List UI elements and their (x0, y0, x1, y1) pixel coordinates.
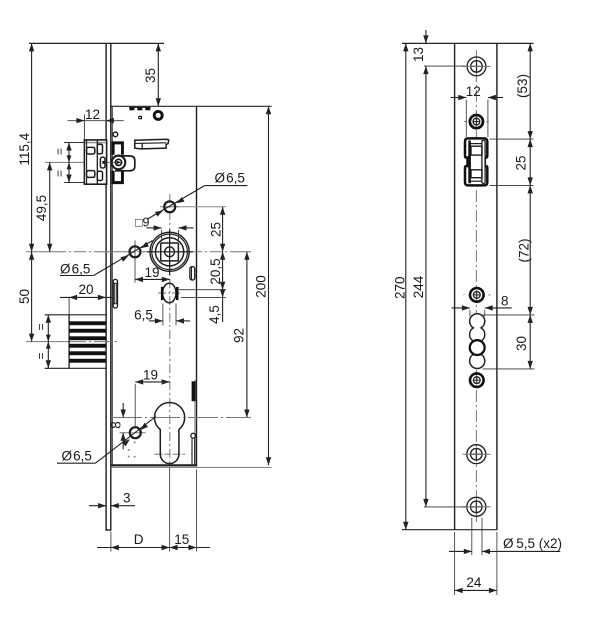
dim 8 left view (122, 403, 124, 418)
svg-text:19: 19 (144, 265, 159, 280)
dim 12 insert width (451, 97, 467, 99)
oblong hole 6,5 (163, 283, 176, 303)
nut outer ring (150, 232, 189, 271)
deadbolt lamination band 2 (69, 329, 106, 333)
latch lamination window bottom-left (87, 171, 95, 178)
vertical centerline through nut and cylinder (169, 194, 171, 464)
plate top edge with extensions (402, 42, 534, 44)
dim 8 slot width (452, 307, 470, 309)
svg-text:(72): (72) (516, 238, 531, 262)
dim 3 faceplate thickness (89, 505, 106, 507)
latch extension lines (64, 142, 84, 144)
roller center arrow tip (117, 161, 122, 164)
faceplate right edge (110, 43, 112, 530)
svg-text:92: 92 (232, 328, 247, 343)
cylinder keyway bottom tick y=454.3 (155, 453, 186, 455)
ext line y=207.5 to 25-dim (177, 206, 227, 208)
svg-text:24: 24 (466, 575, 482, 590)
faceplate cutout lower staple (112, 171, 124, 184)
case top edge with extension to 200-dim (111, 105, 272, 107)
slot selected ring (470, 340, 485, 355)
deadbolt top edge with extension (45, 314, 106, 316)
insert bottom band (470, 180, 482, 182)
case bottom shadow line / extension to 200-dim (111, 466, 272, 468)
svg-text:13: 13 (411, 47, 426, 62)
comb strip tab 2 (137, 107, 142, 110)
svg-text:8: 8 (501, 294, 509, 309)
deadbolt lamination band 4 (69, 344, 106, 348)
svg-text:200: 200 (253, 275, 268, 298)
svg-text:(53): (53) (515, 74, 530, 98)
case left edge (111, 107, 113, 465)
dim 19 upper (135, 278, 170, 280)
dim 115,4 vertical line (31, 43, 33, 251)
svg-text:3: 3 (123, 491, 131, 506)
dim 30 slot (529, 315, 531, 369)
guide ring bush (154, 111, 162, 119)
latch lamination window bottom-right (97, 171, 102, 180)
svg-text:15: 15 (174, 532, 189, 547)
ext hole F center (424, 506, 466, 508)
plate vertical centerline (475, 50, 477, 523)
dim 20 bolt throw (68, 297, 70, 314)
svg-text:35: 35 (143, 68, 158, 83)
deadbolt lamination band 5 (69, 351, 106, 355)
dim 12 latch protrusion (68, 120, 124, 122)
dim 13 (425, 30, 427, 43)
svg-text:25: 25 (514, 155, 529, 170)
svg-text:Ø 6,5: Ø 6,5 (62, 449, 92, 464)
case bottom edge (111, 464, 197, 466)
oblong side bar left (161, 287, 164, 300)
latch head inner vertical mid (96, 141, 98, 184)
comb strip tab 3 (145, 107, 150, 110)
insert top band (470, 143, 482, 145)
latch strike insert outer (465, 138, 487, 185)
slide lever bar (135, 139, 169, 149)
screw hole D (470, 373, 484, 387)
svg-text:12: 12 (85, 107, 100, 122)
dim 270 (405, 43, 407, 529)
euro profile cylinder hole (154, 403, 184, 464)
spring curl above latch (113, 132, 118, 137)
black bar on right edge (192, 381, 196, 401)
dim 24 (455, 589, 497, 591)
comb strip tab 1 (129, 107, 134, 110)
svg-text:19: 19 (143, 367, 158, 382)
bolt equal-marks dim (47, 315, 49, 369)
latch lamination window top-left (87, 147, 95, 154)
svg-text:Ø 6,5: Ø 6,5 (60, 261, 90, 276)
small square stud (138, 116, 142, 120)
dot of bolt centerline (115, 341, 118, 343)
bottom dim chain D / 15 (97, 547, 210, 549)
slide lever left square (141, 143, 143, 148)
insert adjuster column (482, 140, 485, 183)
dim Ø5,5 (x2) (471, 518, 473, 555)
deadbolt lamination band 1 (69, 321, 106, 325)
nut square 9mm (161, 243, 179, 261)
plate right edge (496, 43, 498, 529)
dim 244 (425, 66, 427, 507)
screw hole C (470, 288, 484, 302)
dim 50 (31, 252, 33, 342)
svg-text:20: 20 (78, 282, 93, 297)
ext line latch left edge (83, 115, 85, 140)
svg-text:6,5: 6,5 (134, 307, 153, 322)
insert left bar (468, 141, 471, 184)
guide stud right of faceplate (113, 279, 117, 308)
svg-text:8: 8 (108, 421, 123, 429)
svg-text:D: D (134, 532, 144, 547)
dim (72) (529, 185, 531, 315)
fixing hole left (135,251.8) (130, 246, 141, 257)
fixing hole bottom (135.3,432.7) (130, 427, 141, 438)
horizontal centerline nut / hole row y=251.8 (26, 251, 251, 253)
svg-text:=: = (53, 170, 67, 177)
deadbolt lamination band 6 (69, 359, 106, 363)
vertical tick through left hole x=135 (134, 241, 136, 264)
dim 20,5 (222, 252, 224, 290)
dim 19 lower (135, 381, 169, 383)
dim 4,5 (177, 289, 226, 291)
nut center hole (165, 247, 175, 257)
latch spindle square (100, 157, 105, 168)
nut middle ring (152, 234, 188, 270)
dim 6,5 oval (162, 304, 164, 326)
deadbolt left edge (68, 315, 70, 369)
svg-text:=: = (34, 352, 48, 359)
svg-text:Ø 5,5 (x2): Ø 5,5 (x2) (503, 536, 562, 551)
horizontal centerline lower fix hole y=432.7 (120, 432, 147, 434)
svg-text:115,4: 115,4 (17, 132, 32, 165)
svg-text:□9: □9 (135, 215, 150, 229)
pin with channel lower right (191, 433, 196, 438)
insert window top (471, 146, 482, 155)
svg-text:270: 270 (392, 276, 407, 299)
latch head inner vertical left (86, 140, 88, 184)
dotted marks near lower hole (134, 441, 136, 443)
oblong side bar right (176, 287, 179, 300)
svg-text:Ø 6,5: Ø 6,5 (215, 170, 245, 185)
dim 25 (222, 207, 224, 252)
latch head top gray band (86, 142, 107, 144)
horizontal centerline latch roller y=162.4 (45, 161, 121, 163)
nut cross centerlines (147, 251, 193, 253)
dim 25 insert height (529, 139, 531, 185)
ext hole A center (424, 65, 466, 67)
cloverleaf adjustment slot (470, 314, 485, 369)
plate bottom edge with extension (402, 529, 498, 531)
fixing hole top (169.8,207.5) (164, 201, 175, 212)
screw hole F bottom (467, 497, 486, 516)
plate left edge (454, 43, 456, 529)
dim (53) (529, 43, 531, 139)
latch lamination window top-right (97, 144, 102, 154)
horizontal centerline deadbolt y=341.6 (26, 341, 112, 343)
nut inner ring (156, 238, 184, 266)
horizontal centerline cylinder y=417.5 (112, 417, 251, 419)
dim 200 (268, 106, 270, 465)
latch equal-marks dim (68, 143, 70, 183)
svg-text:25: 25 (208, 222, 223, 237)
comb strip rail (129, 106, 151, 108)
svg-text:244: 244 (411, 275, 426, 298)
svg-text:20,5: 20,5 (208, 258, 223, 284)
latch roller inner (115, 159, 121, 165)
latch roller outer (112, 156, 126, 170)
faceplate bottom cap (105, 529, 111, 531)
slide lever inner top line (135, 142, 166, 145)
svg-text:49,5: 49,5 (34, 195, 49, 221)
svg-text:30: 30 (514, 336, 529, 351)
screw hole A top (467, 57, 486, 76)
dim 35 (157, 43, 159, 106)
screw hole E (467, 445, 486, 464)
screw hole B (470, 115, 483, 128)
deadbolt lamination band 3 (69, 336, 106, 340)
adjuster slot on right edge (190, 267, 195, 280)
svg-text:12: 12 (466, 84, 481, 99)
case right edge (196, 106, 198, 466)
faceplate top edge / extension line (29, 42, 164, 44)
svg-text:4,5: 4,5 (207, 305, 222, 324)
horizontal tick oval hole y=293 (158, 292, 181, 294)
svg-text:=: = (34, 323, 48, 330)
roller housing (115, 156, 135, 171)
faceplate cutout upper staple (112, 141, 124, 154)
faceplate left edge (105, 43, 107, 530)
svg-text:=: = (53, 148, 67, 155)
horizontal tick top hole y=207.5 (160, 206, 180, 208)
dim 49,5 (49, 162, 51, 251)
insert window bottom (471, 170, 482, 178)
svg-text:50: 50 (17, 289, 32, 304)
deadbolt bottom edge with extension (45, 367, 106, 369)
dim 92 (246, 252, 248, 418)
latch head outer block (84, 140, 106, 184)
